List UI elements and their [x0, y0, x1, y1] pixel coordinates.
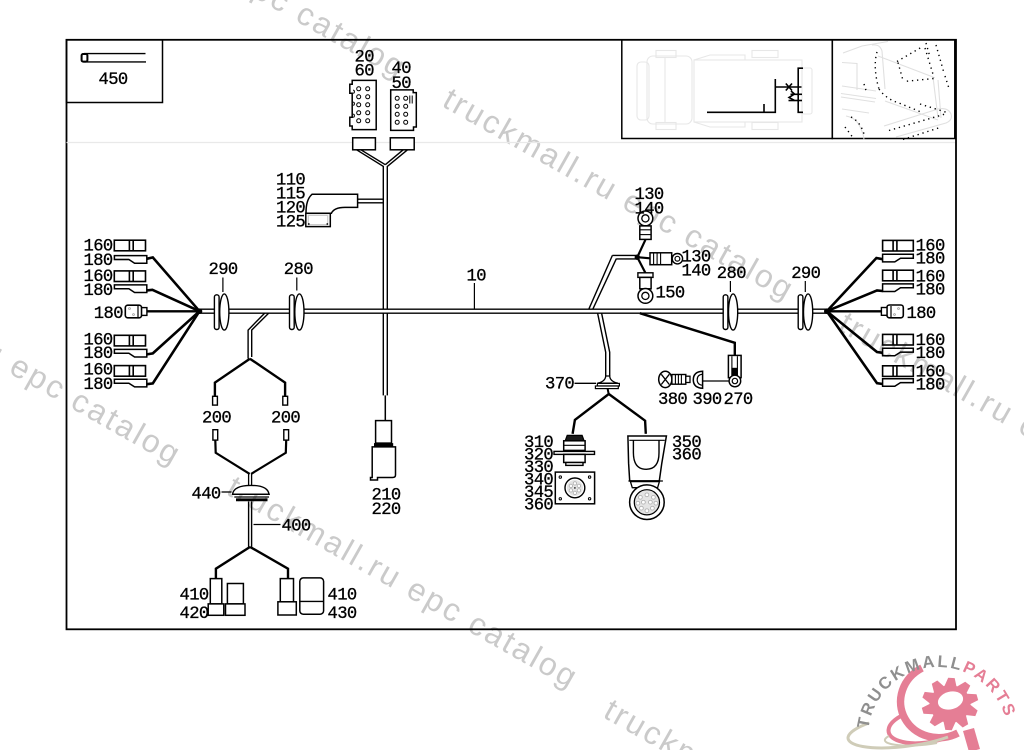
svg-text:280: 280: [717, 265, 746, 284]
svg-text:280: 280: [284, 261, 313, 280]
310 face plate: [555, 472, 594, 504]
branch wire up to 130/140 junction: [589, 255, 637, 309]
svg-text:360: 360: [672, 446, 701, 465]
svg-text:290: 290: [209, 261, 238, 280]
wire to 270: [640, 313, 735, 355]
svg-text:410: 410: [180, 586, 209, 605]
grommet 280 left: [290, 294, 305, 330]
wire to ring terminal 130/140: [637, 240, 645, 257]
connector 410/420 wired: [210, 579, 222, 604]
branch wire to 200 pair: [248, 313, 269, 358]
Y split to 410 connectors: [216, 547, 288, 579]
connector housing 160: [114, 271, 145, 282]
watermark layer: [50, 0, 412, 84]
cab harness dotted routes: [845, 43, 950, 140]
round connector 180 left: [125, 305, 147, 318]
screw 380: [659, 371, 672, 387]
svg-text:180: 180: [916, 376, 945, 395]
svg-text:450: 450: [99, 71, 128, 90]
svg-text:200: 200: [271, 410, 300, 429]
wire to 150: [637, 257, 645, 273]
connector 310 group: [565, 435, 584, 440]
svg-text:50: 50: [392, 75, 412, 94]
main harness 10: [199, 308, 827, 310]
svg-text:10: 10: [467, 267, 487, 286]
terminal 180: [114, 379, 146, 387]
elbow wire: [358, 198, 383, 200]
svg-text:180: 180: [84, 282, 113, 301]
connector 430 housing: [300, 578, 324, 614]
350 face circle: [630, 485, 665, 520]
svg-text:180: 180: [84, 345, 113, 364]
wires merging to 440: [215, 440, 286, 474]
svg-text:390: 390: [693, 391, 722, 410]
connector housing 160: [114, 240, 145, 251]
svg-text:410: 410: [328, 586, 357, 605]
connector housing 160: [883, 270, 914, 281]
connector housing 160: [883, 240, 914, 251]
logo swoosh crescent: [848, 668, 958, 748]
connector 420 housing: [227, 584, 243, 604]
terminal stub right 200: [283, 396, 288, 405]
connector 210/220: [376, 421, 392, 444]
Y split to 200 terminals: [215, 359, 285, 397]
connector 350/360 cup: [628, 436, 667, 481]
grommet 290 right: [798, 294, 813, 330]
junction node: [635, 255, 640, 260]
terminal 180: [114, 285, 146, 293]
lower stub left: [213, 430, 218, 440]
svg-text:140: 140: [635, 200, 664, 219]
harness route overlay in top view: [707, 68, 803, 112]
svg-text:220: 220: [372, 501, 401, 520]
terminal 180: [114, 349, 146, 357]
svg-text:270: 270: [724, 391, 753, 410]
wire to bullet 130/140: [637, 257, 650, 258]
connector 410/430 wired: [280, 579, 293, 602]
terminal 270: [728, 355, 741, 377]
grommet 290 left: [214, 294, 229, 330]
elbow boot open end: [306, 213, 331, 226]
wire 400: [248, 502, 250, 547]
svg-text:150: 150: [656, 284, 685, 303]
branch wire down to 370: [598, 313, 610, 376]
svg-text:180: 180: [84, 252, 113, 271]
right fan wires: [827, 258, 883, 384]
wire to 210: [384, 395, 386, 420]
svg-text:370: 370: [545, 376, 574, 395]
bullet terminal 130/140 right: [650, 253, 672, 265]
lower stub right: [284, 430, 289, 440]
svg-text:420: 420: [180, 605, 209, 624]
inset box truck cab view: [832, 40, 955, 139]
connector housing 160: [883, 334, 914, 345]
svg-text:125: 125: [276, 213, 305, 232]
svg-text:180: 180: [916, 250, 945, 269]
terminal 150: [638, 273, 653, 278]
cable icon in 450 box: [84, 53, 146, 55]
terminal 180: [883, 379, 914, 387]
svg-text:400: 400: [282, 517, 311, 536]
svg-text:430: 430: [328, 605, 357, 624]
svg-text:360: 360: [524, 496, 553, 515]
svg-text:180: 180: [907, 305, 936, 324]
inset box truck top view: [622, 40, 833, 139]
left fan node: [197, 308, 203, 314]
svg-text:440: 440: [192, 485, 221, 504]
connector housing 160: [114, 366, 145, 377]
svg-text:180: 180: [84, 376, 113, 395]
grommet 370: [598, 376, 618, 383]
svg-text:290: 290: [791, 265, 820, 284]
sleeve below 40/50: [390, 138, 414, 150]
round connector 180 right: [881, 305, 903, 318]
terminal stub left 200: [213, 396, 218, 405]
truck cab rear view sketch: [841, 42, 951, 141]
svg-text:180: 180: [916, 345, 945, 364]
elbow boot 110-125: [306, 194, 358, 213]
terminal 180: [883, 284, 914, 292]
logo arc text TRUCKMALL PARTS: [868, 667, 1008, 737]
connector housing 160: [883, 366, 914, 377]
right fan node: [824, 308, 830, 314]
terminal 180: [114, 256, 146, 264]
connector housing 160: [114, 335, 145, 346]
terminal 180: [883, 254, 914, 262]
Y merge wires: [357, 150, 408, 396]
grommet 280 right: [723, 294, 738, 330]
svg-text:380: 380: [658, 391, 687, 410]
svg-text:140: 140: [682, 262, 711, 281]
ring terminal 130/140 top: [638, 211, 653, 226]
sleeve below 20/60: [353, 138, 376, 150]
terminal 180: [883, 348, 914, 356]
svg-text:200: 200: [202, 410, 231, 429]
truck top view outline: [637, 51, 812, 130]
left fan wires: [147, 257, 200, 384]
svg-text:180: 180: [916, 281, 945, 300]
page border frame: [67, 40, 957, 630]
legend box 450: [67, 40, 163, 103]
svg-text:60: 60: [355, 62, 375, 81]
grommet 440: [233, 485, 270, 494]
Y split to 310 and 350: [573, 394, 646, 434]
clip 390: [693, 371, 702, 388]
svg-text:180: 180: [94, 305, 123, 324]
logo gear: [922, 678, 978, 730]
